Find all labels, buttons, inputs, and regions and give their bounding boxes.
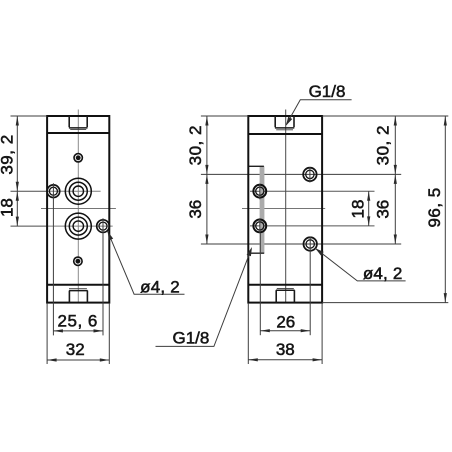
svg-text:18: 18 <box>349 200 368 219</box>
svg-text:ø4, 2: ø4, 2 <box>363 264 403 283</box>
svg-text:18: 18 <box>0 198 17 217</box>
svg-text:ø4, 2: ø4, 2 <box>140 277 180 296</box>
svg-text:96, 5: 96, 5 <box>425 187 444 227</box>
svg-text:39, 2: 39, 2 <box>0 134 17 174</box>
svg-text:G1/8: G1/8 <box>172 329 209 348</box>
svg-text:38: 38 <box>276 340 295 359</box>
svg-text:36: 36 <box>186 200 205 219</box>
svg-text:36: 36 <box>373 200 392 219</box>
svg-text:G1/8: G1/8 <box>309 82 346 101</box>
svg-text:30, 2: 30, 2 <box>373 125 392 165</box>
svg-text:32: 32 <box>66 340 85 359</box>
svg-text:26: 26 <box>276 313 295 332</box>
svg-text:30, 2: 30, 2 <box>186 125 205 165</box>
svg-text:25, 6: 25, 6 <box>58 312 98 331</box>
